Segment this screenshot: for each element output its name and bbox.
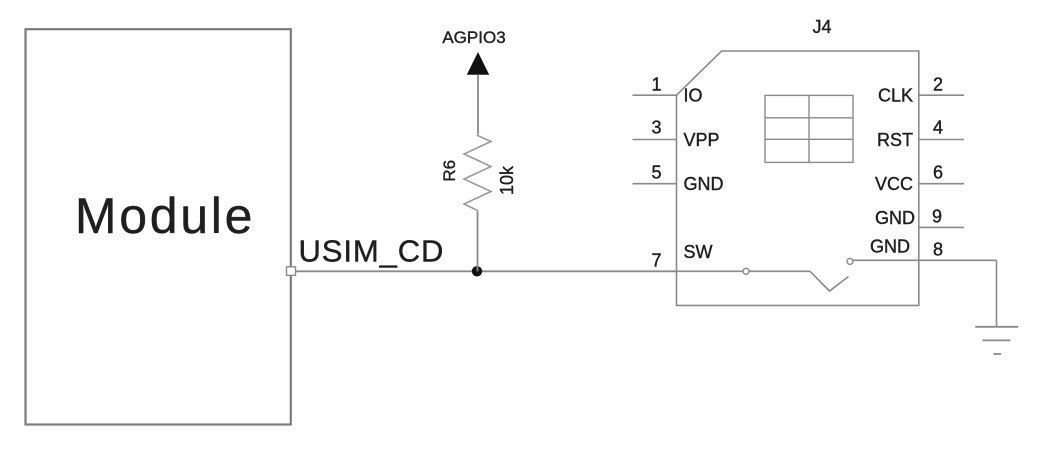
svg-text:VPP: VPP <box>684 130 720 150</box>
svg-text:8: 8 <box>933 240 943 260</box>
label AGPIO3 <box>442 28 505 47</box>
value 10k <box>497 165 517 195</box>
module block <box>26 29 291 424</box>
svg-text:5: 5 <box>651 163 661 183</box>
pin 1 (IO) <box>633 75 703 106</box>
svg-text:4: 4 <box>933 118 943 138</box>
svg-text:6: 6 <box>933 163 943 183</box>
pin 6 (VCC) <box>875 163 964 195</box>
switch contact circle right <box>847 258 853 264</box>
svg-text:VCC: VCC <box>875 174 913 194</box>
svg-text:CLK: CLK <box>878 86 913 106</box>
svg-text:9: 9 <box>932 206 942 226</box>
svg-text:3: 3 <box>651 118 661 138</box>
module pin square <box>287 267 296 276</box>
pin 8 (GND) <box>853 237 997 261</box>
label J4 <box>812 17 831 37</box>
svg-text:7: 7 <box>651 251 661 271</box>
svg-text:IO: IO <box>684 86 703 106</box>
wire USIM_CD: module pin to connector pin 7 <box>296 270 677 272</box>
connector J4 outline <box>677 51 919 305</box>
svg-text:R6: R6 <box>440 160 459 182</box>
switch blade <box>810 271 849 291</box>
svg-text:GND: GND <box>870 237 910 257</box>
module label "Module" <box>75 188 255 244</box>
svg-text:J4: J4 <box>812 17 831 37</box>
switch contact circle left <box>743 268 749 274</box>
pin 5 (GND) <box>633 163 724 195</box>
svg-text:10k: 10k <box>497 165 517 195</box>
switch: SW wire inside connector <box>677 270 811 272</box>
pin 3 (VPP) <box>633 118 720 151</box>
svg-text:USIM_CD: USIM_CD <box>299 234 445 269</box>
pin 4 (RST) <box>877 118 964 151</box>
svg-text:GND: GND <box>684 174 724 194</box>
power flag AGPIO3 (arrow) <box>467 52 489 134</box>
svg-text:AGPIO3: AGPIO3 <box>442 28 505 47</box>
svg-text:2: 2 <box>933 75 943 95</box>
svg-text:GND: GND <box>875 208 915 228</box>
svg-text:RST: RST <box>877 130 913 150</box>
wire pin 8 to ground <box>996 260 998 327</box>
junction dot <box>472 266 482 276</box>
net label USIM_CD <box>299 234 445 269</box>
svg-text:Module: Module <box>75 188 255 244</box>
svg-text:SW: SW <box>684 242 713 262</box>
pin 9 (GND) <box>875 206 964 228</box>
pin 2 (CLK) <box>878 75 964 106</box>
pin 7 (SW) <box>651 242 712 271</box>
svg-text:1: 1 <box>651 75 661 95</box>
resistor R6 <box>464 134 491 271</box>
ground <box>975 327 1018 354</box>
label R6 <box>440 160 459 182</box>
SIM contact grid <box>765 95 853 162</box>
